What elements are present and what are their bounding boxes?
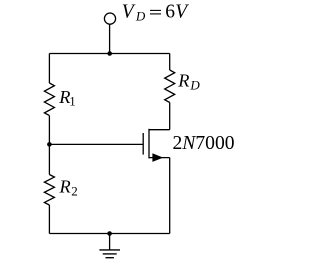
svg-text:2: 2 [71, 184, 78, 199]
wire R1 to node [48, 116, 50, 145]
wire R2 to bottom rail [48, 205, 50, 234]
label R2 [59, 177, 78, 199]
svg-text:2N7000: 2N7000 [173, 133, 235, 154]
transistor Q1 gate bar [142, 133, 144, 155]
node ground junction [107, 231, 112, 236]
transistor Q1 channel bar [148, 129, 150, 159]
wire drain lead [149, 129, 170, 131]
svg-text:D: D [135, 9, 146, 24]
wire bottom rail [49, 233, 169, 235]
svg-text:6: 6 [165, 1, 175, 22]
wire source to bottom rail [169, 158, 171, 234]
wire RD to drain [169, 103, 171, 130]
svg-text:V: V [122, 1, 136, 22]
wire ground stub [109, 234, 111, 250]
node top junction [107, 51, 112, 56]
svg-text:1: 1 [69, 95, 75, 109]
wire right upper lead [169, 54, 171, 71]
wire terminal stub [109, 24, 111, 53]
svg-text:D: D [189, 78, 200, 93]
resistor RD [165, 70, 175, 103]
resistor R1 [44, 83, 54, 116]
svg-text:R: R [177, 71, 189, 91]
wire node to R2 [48, 144, 50, 174]
terminal VD (open circle) [104, 13, 115, 24]
wire gate lead [49, 143, 143, 145]
transistor Q1 source arrow [152, 153, 163, 162]
resistor R2 [44, 175, 54, 206]
node gate junction [47, 142, 52, 147]
label R1 [58, 87, 75, 109]
wire left upper lead [48, 54, 50, 84]
wire top rail [49, 53, 169, 55]
wire source lead [149, 157, 170, 159]
ground [99, 250, 120, 258]
svg-text:R: R [59, 177, 71, 197]
label RD [177, 71, 200, 93]
label VD = 6V [122, 1, 189, 23]
svg-text:V: V [175, 1, 189, 22]
